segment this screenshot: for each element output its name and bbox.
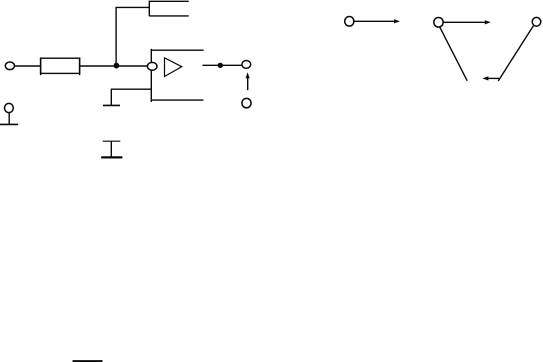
input terminal J1 [5,62,14,70]
node N1 [345,17,354,27]
resistor R1 [41,57,80,75]
arrow up toward J2 [246,72,250,90]
arrow N1 right [354,19,400,23]
wire N3 diagonal down [498,26,533,81]
inversion bubble on U1 input [147,62,157,70]
ground GND2 clipped at bottom [73,360,103,362]
node N3 [532,17,541,26]
wire U1 output [203,64,243,66]
output terminal J2 [242,61,251,69]
wire N2 diagonal down [440,27,467,81]
arrow N2 to N3 [443,20,490,24]
connector P1 [149,1,188,17]
wire node A up to connector P1 [116,7,149,65]
ground GND1 [103,89,120,105]
terminal J3 [242,98,251,107]
inverter U1 body [151,49,204,102]
wire J1 to resistor R1 [14,65,40,67]
terminal J4 with ground bar [0,103,18,124]
wire R1 to node A [80,65,148,67]
node A junction dot [114,63,120,69]
wire lower input stub of U1 [111,88,151,90]
arrow left at bottom of cycle [482,76,499,80]
node B junction dot [218,63,223,68]
node N2 [434,18,443,28]
capacitor C1 [101,141,122,157]
